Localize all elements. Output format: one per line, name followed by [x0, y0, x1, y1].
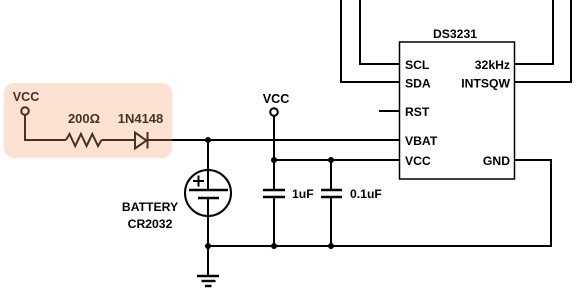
svg-text:32kHz: 32kHz [475, 58, 510, 72]
wire diode to VBAT pin [148, 139, 400, 141]
ground symbol [197, 276, 219, 286]
junction ground rail at 0.1uF [328, 243, 334, 249]
svg-text:DS3231: DS3231 [433, 27, 477, 41]
wire resistor to diode [102, 139, 136, 141]
junction VCC rail at 0.1uF [328, 157, 334, 163]
ground rail wire [208, 160, 551, 246]
battery BT1 circle [185, 170, 231, 216]
resistor R1 200Ω [66, 134, 101, 146]
wire SDA to top [341, 0, 399, 82]
wire SCL to top [360, 0, 399, 64]
battery long plate [189, 189, 228, 192]
svg-text:VCC: VCC [405, 154, 431, 168]
capacitor C1 1uF bottom plate [263, 196, 285, 199]
wire INTSQW to top [514, 0, 571, 82]
junction ground rail at 1uF [271, 243, 277, 249]
capacitor C1 1uF top plate [263, 189, 285, 192]
wire 0.1uF top lead [330, 160, 332, 190]
wire VCC terminal down across VBAT to VCC rail and 1uF cap [273, 116, 275, 190]
svg-text:SCL: SCL [405, 58, 430, 72]
wire 32kHz to top [514, 0, 553, 64]
svg-text:VCC: VCC [263, 92, 290, 106]
svg-text:VBAT: VBAT [405, 134, 438, 148]
junction ground rail at battery [205, 243, 211, 249]
svg-text:INTSQW: INTSQW [461, 77, 510, 91]
svg-text:SDA: SDA [405, 77, 431, 91]
svg-text:CR2032: CR2032 [128, 217, 173, 231]
diode D1 1N4148 anode triangle [135, 133, 147, 149]
wire VCC terminal to resistor [25, 115, 66, 140]
battery short plate [198, 197, 219, 200]
highlight overlay on VCC-resistor-diode branch [4, 83, 172, 158]
capacitor C2 0.1uF bottom plate [321, 196, 342, 199]
diode D1 cathode bar [147, 132, 149, 149]
node VCC middle terminal circle [270, 108, 278, 116]
capacitor C2 0.1uF top plate [321, 189, 342, 192]
node VCC left terminal circle [21, 107, 29, 115]
junction battery top [205, 137, 211, 143]
svg-text:RST: RST [405, 105, 430, 119]
op IC U1 DS3231 body [400, 42, 515, 179]
wire 1uF bottom lead [273, 197, 275, 246]
wire ground stem [207, 246, 209, 276]
wire 0.1uF bottom lead [330, 197, 332, 246]
wire battery bottom lead [207, 198, 209, 246]
svg-text:1uF: 1uF [292, 187, 314, 201]
wire RST stub [379, 110, 399, 112]
wire battery top lead [207, 140, 209, 189]
wire VCC rail to chip VCC pin [274, 159, 399, 161]
battery plus sign [193, 176, 204, 187]
svg-text:0.1uF: 0.1uF [350, 187, 382, 201]
svg-text:GND: GND [483, 154, 510, 168]
junction VCC rail at 1uF [271, 157, 277, 163]
svg-text:BATTERY: BATTERY [122, 200, 178, 214]
